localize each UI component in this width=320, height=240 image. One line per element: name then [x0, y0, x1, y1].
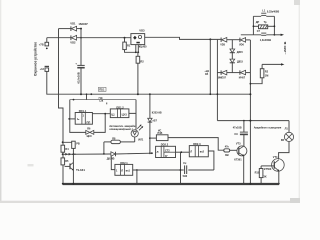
svg-text:СТ2: СТ2	[165, 149, 170, 152]
svg-text:РВ: РВ	[76, 143, 80, 146]
svg-text:VD6: VD6	[239, 44, 244, 47]
svg-text:Д815: Д815	[237, 51, 244, 54]
svg-text:~220 В: ~220 В	[283, 42, 287, 55]
svg-text:R15: R15	[255, 171, 260, 174]
svg-text:вк2: вк2	[200, 151, 205, 154]
svg-text:ПЗВ: ПЗВ	[158, 133, 163, 135]
svg-text:ИЧ07: ИЧ07	[239, 76, 246, 79]
svg-text:1,0x400В: 1,0x400В	[260, 38, 271, 42]
svg-text:47x10В: 47x10В	[233, 126, 242, 129]
svg-text:TL431: TL431	[76, 168, 85, 172]
svg-text:Тр: Тр	[264, 21, 267, 24]
svg-text:VT4: VT4	[273, 156, 278, 159]
svg-text:5Н0: 5Н0	[183, 175, 188, 178]
svg-text:VD2: VD2	[70, 40, 76, 44]
svg-text:VD5: VD5	[220, 44, 225, 47]
svg-text:+: +	[75, 62, 77, 66]
svg-text:+12: +12	[40, 67, 45, 71]
svg-text:Л: Л	[190, 151, 192, 154]
svg-text:DD2.1: DD2.1	[120, 161, 128, 165]
svg-text:КТ361: КТ361	[234, 158, 242, 161]
svg-text:ЗК: ЗК	[263, 176, 267, 179]
svg-text:6В: 6В	[281, 139, 284, 142]
svg-text:63,0x16В: 63,0x16В	[76, 72, 80, 83]
svg-text:КЦ405: КЦ405	[139, 45, 147, 49]
svg-text:R1: R1	[127, 43, 131, 47]
svg-text:DD1.2: DD1.2	[116, 106, 124, 110]
svg-text:ПП: ПП	[87, 120, 91, 124]
svg-text:Д814Б: Д814Б	[107, 157, 115, 160]
svg-text:К253-9В: К253-9В	[152, 112, 162, 115]
svg-text:КТ503: КТ503	[264, 168, 272, 171]
svg-text:Л: Л	[157, 151, 159, 154]
svg-text:DD1.1: DD1.1	[79, 109, 87, 113]
svg-text:С2а: С2а	[99, 101, 104, 103]
svg-text:DD2.3: DD2.3	[193, 142, 201, 146]
svg-text:0,33x400В: 0,33x400В	[267, 11, 279, 14]
svg-text:VD1: VD1	[70, 22, 76, 26]
svg-text:Д815: Д815	[237, 61, 244, 64]
svg-text:VD3: VD3	[139, 29, 145, 33]
svg-text:ЦКХ: ЦКХ	[87, 135, 92, 138]
svg-text:Ц1: Ц1	[111, 112, 115, 116]
svg-text:ИЛ1: ИЛ1	[138, 139, 144, 142]
svg-text:Аварийного освещения: Аварийного освещения	[254, 126, 282, 130]
svg-text:R2: R2	[140, 59, 144, 63]
svg-text:+7В: +7В	[39, 42, 44, 46]
svg-text:1N4007: 1N4007	[78, 22, 88, 26]
svg-text:+В7: +В7	[152, 119, 157, 122]
svg-text:1М: 1М	[265, 75, 268, 78]
svg-text:Л: Л	[121, 169, 123, 173]
svg-text:DD2.2: DD2.2	[161, 143, 169, 147]
svg-text:освещение(выкл.): освещение(выкл.)	[109, 127, 133, 131]
svg-text:1В: 1В	[205, 73, 208, 76]
svg-text:ДР: ДР	[256, 21, 260, 24]
svg-text:Охранное устройство: Охранное устройство	[33, 42, 37, 76]
svg-text:вк1: вк1	[126, 169, 131, 173]
svg-text:9МЕ07: 9МЕ07	[218, 77, 227, 80]
svg-text:ЦУЗ: ЦУЗ	[122, 112, 128, 116]
svg-text:П1Б: П1Б	[99, 88, 104, 92]
svg-text:VT3: VT3	[236, 142, 241, 145]
